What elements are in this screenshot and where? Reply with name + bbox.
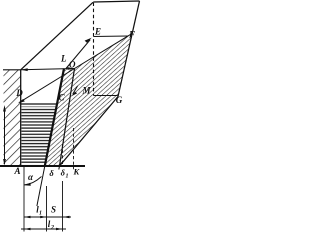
dashed vertical E-M — [93, 3, 95, 96]
front face horizontal-hatched trapezoid — [22, 107, 57, 165]
svg-text:δ: δ — [49, 168, 54, 178]
depth edge B2-G — [60, 97, 119, 167]
vertical thickness dimension over wall — [4, 107, 6, 164]
svg-text:E: E — [94, 27, 101, 37]
strip right edge O-B2 — [60, 69, 75, 167]
svg-text:C: C — [58, 93, 65, 103]
strip left edge thick L-C-B — [45, 69, 64, 167]
K line tick below bottom line — [73, 166, 75, 169]
dimension line l1 + S at y=217 — [24, 216, 71, 218]
dimension line L with arrows — [21, 69, 75, 70]
extension vertical from A x=24 — [23, 167, 25, 232]
B2 edge overshoot below bottom line — [58, 166, 61, 170]
svg-text:A: A — [13, 166, 20, 176]
top back edge T1-T2 — [93, 1, 139, 2]
shear deformation schematic (scanned textbook figure) — [0, 0, 142, 236]
svg-text:1: 1 — [39, 211, 42, 217]
extension vertical x=62.5 below line — [62, 181, 64, 232]
extension vertical from B x=46.5 — [46, 186, 48, 232]
slip-plane hatched region — [45, 33, 133, 166]
svg-text:G: G — [116, 95, 123, 105]
alpha angle arc with arrow — [24, 177, 41, 185]
dashed extension K x=73.5 — [73, 128, 75, 166]
svg-text:S: S — [51, 205, 56, 215]
strip left edge extension below B — [37, 166, 45, 206]
bottom line through A B K — [0, 165, 85, 167]
dashed extension x=62.5 above bottom line — [62, 144, 64, 166]
dimension line l2 at y=229 — [21, 228, 66, 230]
wall (fixed support) hatched — [4, 70, 21, 166]
svg-text:M: M — [81, 86, 91, 96]
svg-text:1: 1 — [66, 174, 69, 180]
svg-text:2: 2 — [50, 225, 54, 231]
svg-text:F: F — [128, 30, 135, 40]
slip direction arrow L to E corner — [66, 40, 90, 69]
front face top edge D-C — [21, 103, 58, 105]
svg-text:L: L — [60, 54, 67, 64]
long diagonal wall corner to top T1 — [21, 2, 93, 70]
svg-text:O: O — [69, 60, 76, 70]
right steep edge T2 through F to G — [118, 1, 140, 97]
wall top edge — [3, 69, 21, 71]
line E-F — [94, 35, 129, 38]
wall right edge / slab left edge — [20, 70, 22, 166]
line F-O-D (slip plane top boundary, arrow at D) — [20, 33, 133, 102]
line M-G — [94, 95, 118, 97]
svg-text:D: D — [15, 88, 23, 98]
small slip arrow on strip — [73, 86, 78, 94]
